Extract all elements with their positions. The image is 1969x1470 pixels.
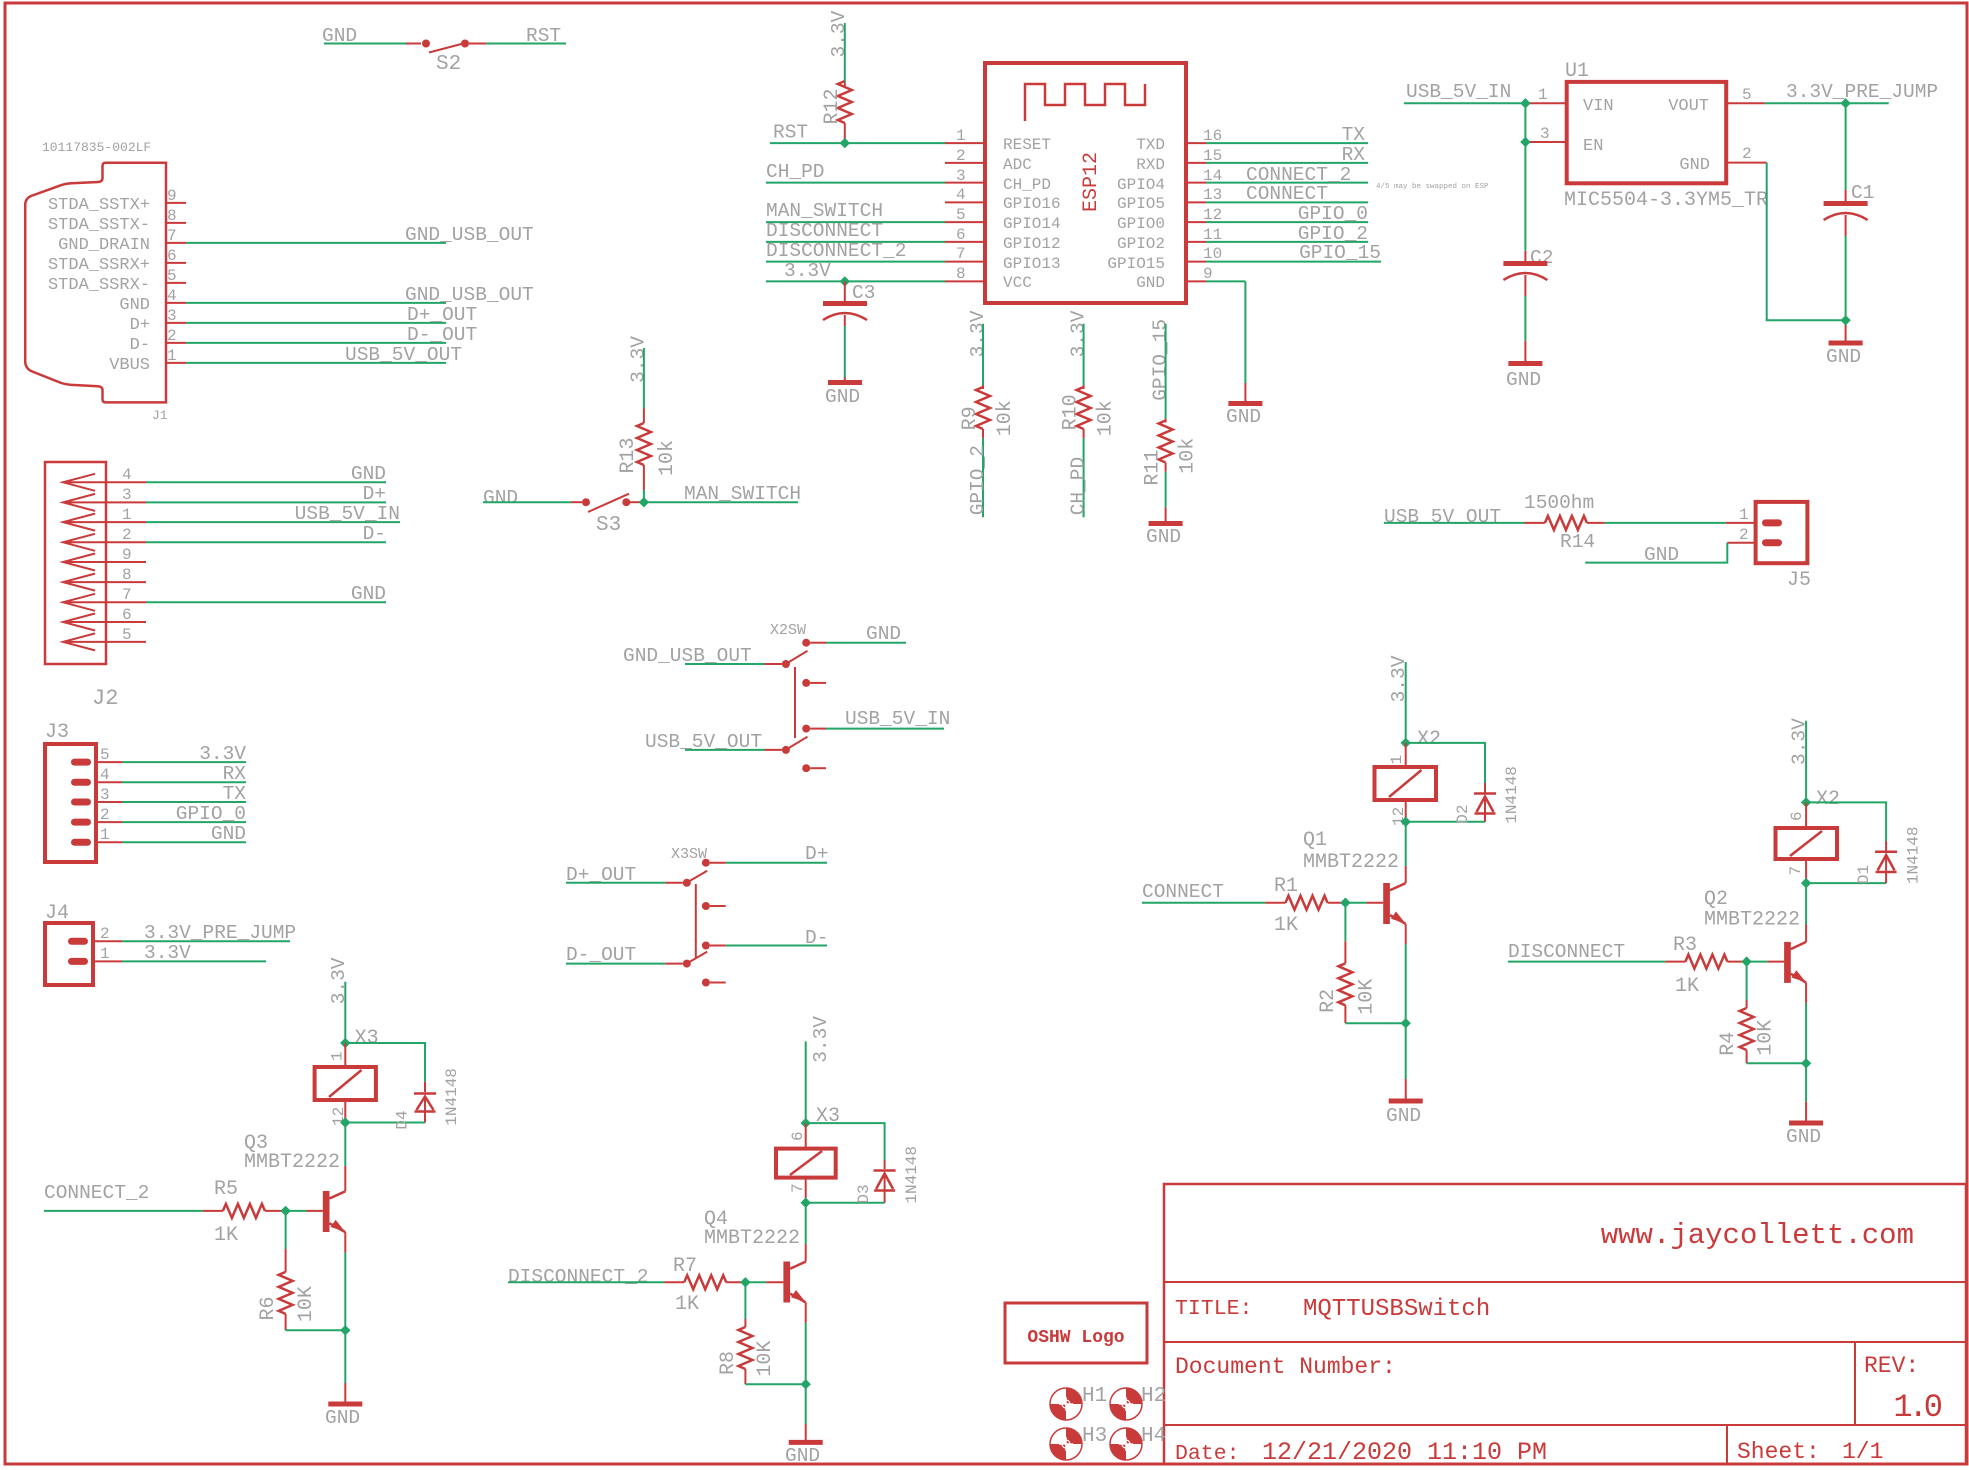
J2 pin 3	[63, 483, 386, 511]
svg-text:J2: J2	[92, 686, 118, 711]
wire base junction to Q1	[1345, 902, 1383, 904]
svg-text:8: 8	[122, 566, 132, 584]
J3 pin 4	[71, 763, 246, 786]
svg-text:X3: X3	[816, 1105, 840, 1128]
resistor R2 10K	[1317, 903, 1406, 1024]
svg-text:13: 13	[1203, 186, 1222, 204]
wire junction to D3 anode	[806, 1202, 885, 1204]
wire GND to S2	[324, 43, 406, 45]
svg-text:GPIO14: GPIO14	[1003, 215, 1061, 233]
J3 pin 5	[71, 743, 246, 766]
J2 pin 1	[63, 503, 400, 531]
resistor R12	[821, 10, 852, 143]
svg-text:D-: D-	[130, 336, 150, 355]
svg-text:5: 5	[100, 746, 110, 764]
svg-text:GPIO_15: GPIO_15	[1150, 319, 1172, 401]
ground for C1	[1826, 343, 1863, 368]
svg-text:S2: S2	[436, 53, 461, 76]
svg-text:3: 3	[100, 786, 110, 804]
svg-text:GND: GND	[211, 823, 246, 845]
svg-text:CH_PD: CH_PD	[766, 161, 825, 183]
svg-text:STDA_SSRX+: STDA_SSRX+	[48, 256, 150, 275]
svg-text:D+: D+	[130, 316, 150, 335]
svg-text:GND: GND	[483, 487, 518, 509]
svg-text:U1: U1	[1565, 60, 1589, 83]
X2SW pin USB_5V_IN throw	[802, 725, 810, 733]
node Q3 emitter junction	[340, 1325, 350, 1335]
svg-text:VIN: VIN	[1583, 97, 1614, 116]
node MAN_SWITCH junction	[639, 497, 649, 507]
svg-text:6: 6	[1788, 811, 1806, 821]
svg-text:5: 5	[167, 267, 177, 285]
svg-text:R8: R8	[717, 1351, 740, 1375]
svg-text:REV:: REV:	[1864, 1353, 1919, 1379]
resistor R4 10K	[1717, 962, 1806, 1064]
svg-text:8: 8	[167, 207, 177, 225]
switch S2	[322, 25, 566, 76]
capacitor C2	[1503, 247, 1553, 362]
svg-text:USB_5V_OUT: USB_5V_OUT	[345, 344, 462, 366]
svg-text:9: 9	[122, 546, 132, 564]
ESP pin 1 RESET	[945, 127, 1051, 154]
svg-text:GND: GND	[1679, 156, 1710, 175]
wire base junction to Q4	[745, 1281, 783, 1283]
connector J3	[45, 721, 96, 862]
svg-text:6: 6	[122, 606, 132, 624]
svg-text:1N4148: 1N4148	[1503, 766, 1521, 824]
svg-text:R2: R2	[1317, 989, 1340, 1013]
X3SW pin D+ throw	[702, 859, 710, 867]
ESP pin 11 GPIO2 / wire GPIO_2	[1117, 223, 1368, 253]
svg-text:8: 8	[956, 265, 966, 283]
svg-text:GND: GND	[351, 463, 386, 485]
mechanical link	[794, 667, 796, 738]
node Q3 base junction	[280, 1206, 290, 1216]
svg-text:ADC: ADC	[1003, 156, 1032, 174]
J2 pin 4	[63, 463, 386, 491]
svg-text:3.3V: 3.3V	[784, 260, 831, 282]
wire Q1 emitter to GND	[1405, 944, 1407, 1099]
switch X2SW	[623, 622, 950, 772]
svg-text:GND: GND	[325, 1407, 360, 1429]
connector J2	[45, 462, 118, 711]
svg-text:2: 2	[122, 526, 132, 544]
svg-text:J1: J1	[152, 408, 168, 423]
svg-text:MMBT2222: MMBT2222	[704, 1227, 800, 1250]
svg-text:R1: R1	[1274, 875, 1298, 898]
wire junction to D4 anode	[345, 1122, 425, 1124]
svg-text:6: 6	[956, 226, 966, 244]
svg-text:R10: R10	[1060, 394, 1083, 430]
svg-text:VBUS: VBUS	[109, 356, 150, 375]
node Q2 base junction	[1741, 956, 1751, 966]
svg-text:1: 1	[1739, 506, 1749, 524]
svg-text:GND: GND	[866, 623, 901, 645]
svg-text:X2: X2	[1417, 728, 1441, 751]
svg-text:3.3V: 3.3V	[328, 957, 350, 1004]
diode D4 1N4148	[394, 1068, 462, 1130]
wire VIN to EN	[1525, 103, 1566, 143]
svg-text:J5: J5	[1787, 569, 1811, 592]
ESP pin 7 GPIO13 / wire DISCONNECT_2	[766, 240, 1061, 273]
svg-text:1: 1	[167, 347, 177, 365]
wire Q2 emitter to GND	[1805, 1003, 1807, 1122]
wire GND from J5 pin2	[1585, 543, 1727, 563]
ground for Q4	[785, 1442, 823, 1467]
diode D2 1N4148	[1454, 766, 1521, 824]
svg-text:GND: GND	[119, 296, 150, 315]
J5 pin 2	[1762, 539, 1782, 546]
svg-text:Date:: Date:	[1175, 1442, 1240, 1466]
ESP pin 12 GPIO0 / wire GPIO_0	[1117, 203, 1368, 233]
svg-text:R11: R11	[1142, 450, 1165, 486]
diode D1 1N4148	[1855, 826, 1923, 884]
svg-text:GND: GND	[1506, 369, 1541, 391]
svg-text:10k: 10k	[656, 440, 679, 476]
wire S2 to RST	[486, 43, 566, 45]
svg-text:J3: J3	[45, 721, 69, 744]
ground for R11	[1146, 524, 1183, 549]
antenna symbol	[1025, 84, 1145, 121]
X3SW pin nc lower	[702, 979, 710, 987]
svg-text:4/5 may be swapped on ESP: 4/5 may be swapped on ESP	[1376, 183, 1489, 191]
wire MAN_SWITCH	[644, 483, 801, 505]
svg-text:STDA_SSTX+: STDA_SSTX+	[48, 196, 150, 215]
svg-text:R4: R4	[1717, 1032, 1740, 1056]
wire base junction to Q2	[1747, 961, 1785, 963]
ground for ESP pin 9	[1226, 404, 1262, 429]
wire CONNECT to R1	[1142, 881, 1265, 903]
relay X2 coil (Q1)	[1375, 743, 1437, 826]
mechanical link	[695, 884, 697, 958]
svg-text:1: 1	[956, 127, 966, 145]
svg-text:3.3V: 3.3V	[199, 743, 246, 765]
wire D-_OUT from J1 pin2	[186, 324, 477, 346]
node X3b coil top junction	[801, 1118, 811, 1128]
OSHW logo box	[1005, 1303, 1147, 1363]
J1 pin 4	[119, 287, 186, 315]
svg-text:GND: GND	[825, 386, 860, 408]
svg-text:STDA_SSTX-: STDA_SSTX-	[48, 216, 150, 235]
IC U2 ESP12 body	[985, 63, 1186, 303]
node Q1 base junction	[1340, 898, 1350, 908]
resistor R9 pullup	[959, 310, 1017, 517]
J3 pin 2	[71, 803, 246, 826]
node X2b coil bottom junction	[1801, 878, 1811, 888]
J5 pin 1	[1762, 519, 1782, 526]
svg-text:GPIO15: GPIO15	[1107, 255, 1165, 273]
wire junction to D2 anode	[1406, 821, 1485, 823]
svg-text:RX: RX	[223, 763, 247, 785]
svg-text:7: 7	[122, 586, 132, 604]
node Q2 emitter junction	[1801, 1058, 1811, 1068]
ESP pin 6 GPIO12 / wire DISCONNECT	[766, 220, 1061, 253]
svg-text:10K: 10K	[754, 1341, 777, 1377]
svg-text:GPIO13: GPIO13	[1003, 255, 1061, 273]
svg-text:MAN_SWITCH: MAN_SWITCH	[766, 200, 883, 222]
svg-text:USB_5V_IN: USB_5V_IN	[1406, 81, 1511, 103]
J2 pin 8	[63, 566, 146, 591]
title block text	[1175, 1219, 1942, 1467]
svg-text:GND: GND	[1136, 274, 1165, 292]
svg-text:10K: 10K	[1755, 1020, 1778, 1056]
wire U1 GND pin2	[1726, 145, 1845, 320]
svg-text:D-: D-	[363, 523, 386, 545]
svg-text:RXD: RXD	[1136, 156, 1165, 174]
svg-text:D+: D+	[363, 483, 386, 505]
svg-text:1.0: 1.0	[1893, 1389, 1941, 1426]
switch S3	[483, 487, 644, 537]
wire D+_OUT from J1 pin3	[186, 304, 477, 326]
ground for C3	[825, 383, 862, 409]
svg-text:H3: H3	[1082, 1425, 1107, 1448]
svg-text:MQTTUSBSwitch: MQTTUSBSwitch	[1303, 1296, 1490, 1323]
svg-text:R9: R9	[959, 406, 982, 430]
ESP pin 3 CH_PD / wire CH_PD	[766, 161, 1051, 194]
svg-text:Document Number:: Document Number:	[1175, 1354, 1396, 1380]
svg-text:10k: 10k	[1177, 438, 1200, 474]
ESP pin 8 VCC / wire 3.3V	[766, 260, 1032, 292]
resistor R7 1K	[664, 1255, 745, 1316]
J1 pin 6	[48, 247, 186, 275]
J2 pin 5	[63, 626, 146, 650]
node Q4 base junction	[740, 1277, 750, 1287]
svg-text:GND_USB_OUT: GND_USB_OUT	[405, 284, 534, 306]
svg-text:D-_OUT: D-_OUT	[407, 324, 477, 346]
svg-text:R5: R5	[214, 1178, 238, 1201]
wire junction to D2	[1406, 743, 1485, 783]
svg-text:MMBT2222: MMBT2222	[1704, 909, 1800, 932]
svg-text:1K: 1K	[214, 1224, 238, 1247]
svg-text:R3: R3	[1673, 934, 1697, 957]
svg-text:CH_PD: CH_PD	[1068, 457, 1090, 516]
svg-text:3: 3	[956, 167, 966, 185]
svg-text:D-: D-	[805, 927, 828, 949]
resistor R5 1K	[203, 1178, 286, 1247]
J2 pin 7	[63, 583, 386, 611]
ESP pin 14 GPIO4 / wire CONNECT_2	[1117, 164, 1368, 194]
J3 pin 3	[71, 783, 246, 806]
svg-text:RESET: RESET	[1003, 136, 1051, 154]
svg-text:1: 1	[122, 506, 132, 524]
svg-text:GPIO5: GPIO5	[1117, 195, 1165, 213]
wire 3.3V to X3 coil (Q3)	[328, 957, 379, 1050]
svg-text:2: 2	[956, 147, 966, 165]
svg-text:TX: TX	[1342, 124, 1366, 146]
svg-text:3.3V: 3.3V	[810, 1016, 832, 1063]
svg-text:GND: GND	[1146, 526, 1181, 548]
svg-text:TX: TX	[223, 783, 247, 805]
relay X3 coil (Q4)	[776, 1123, 836, 1203]
svg-text:GPIO0: GPIO0	[1117, 215, 1165, 233]
svg-text:H2: H2	[1141, 1385, 1166, 1408]
wire junction to D1	[1806, 802, 1886, 841]
wire VOUT 3.3V_PRE_JUMP	[1726, 81, 1938, 104]
X2SW common 1 GND_USB_OUT	[782, 660, 790, 668]
title block outline	[1164, 1184, 1966, 1464]
svg-text:CONNECT_2: CONNECT_2	[44, 1182, 149, 1204]
X3SW common 1 D+_OUT	[683, 879, 691, 887]
wire base junction to Q3	[286, 1210, 323, 1212]
mounting hole H3	[1050, 1425, 1107, 1460]
X2SW common 2 USB_5V_OUT	[782, 746, 790, 754]
svg-text:Sheet:: Sheet:	[1737, 1439, 1820, 1465]
J2 pin 2	[63, 523, 386, 551]
svg-text:GND: GND	[1386, 1105, 1421, 1127]
capacitor C1	[1824, 103, 1875, 341]
svg-text:Q1: Q1	[1303, 829, 1327, 852]
wire CONNECT_2 to R5	[44, 1182, 203, 1211]
svg-text:VOUT: VOUT	[1668, 97, 1709, 116]
svg-text:DISCONNECT: DISCONNECT	[766, 220, 883, 242]
svg-text:C3: C3	[852, 282, 875, 304]
X3SW common 2 D-_OUT	[683, 960, 691, 968]
svg-text:X3: X3	[355, 1027, 379, 1050]
J2 pin 6	[63, 606, 146, 631]
svg-text:10K: 10K	[295, 1286, 318, 1322]
svg-text:3.3V: 3.3V	[828, 10, 850, 57]
svg-text:1: 1	[1388, 755, 1406, 765]
wire Q3 emitter to GND	[344, 1253, 346, 1403]
svg-text:GND: GND	[1826, 346, 1861, 368]
svg-text:OSHW Logo: OSHW Logo	[1027, 1328, 1124, 1348]
svg-text:VCC: VCC	[1003, 274, 1032, 292]
X3SW pin nc upper	[702, 902, 710, 910]
ground for Q2	[1786, 1123, 1823, 1148]
svg-text:GND: GND	[1786, 1126, 1821, 1148]
J1 pin 2	[130, 327, 186, 355]
svg-text:GPIO16: GPIO16	[1003, 195, 1061, 213]
X3SW pin D- throw	[702, 942, 710, 950]
ground for Q3	[325, 1404, 362, 1429]
svg-text:GND: GND	[1226, 406, 1261, 428]
X2SW pin GND throw	[802, 639, 810, 647]
svg-text:CONNECT: CONNECT	[1142, 881, 1224, 903]
svg-text:GPIO_0: GPIO_0	[176, 803, 246, 825]
svg-text:MMBT2222: MMBT2222	[1303, 851, 1399, 874]
wire junction to D4	[345, 1043, 425, 1082]
svg-text:www.jaycollett.com: www.jaycollett.com	[1601, 1219, 1914, 1252]
ground for C2	[1506, 364, 1542, 392]
svg-text:D3: D3	[855, 1184, 873, 1203]
svg-text:7: 7	[956, 245, 966, 263]
svg-text:3: 3	[122, 486, 132, 504]
svg-text:EN: EN	[1583, 137, 1603, 156]
node VCC/C3 junction	[840, 276, 850, 286]
svg-text:3.3V: 3.3V	[628, 336, 650, 383]
svg-text:1: 1	[329, 1051, 347, 1061]
svg-text:1K: 1K	[1274, 914, 1298, 937]
svg-text:DISCONNECT_2: DISCONNECT_2	[508, 1266, 648, 1288]
svg-text:7: 7	[1787, 866, 1805, 876]
wire GND_USB_OUT from J1 pin4	[186, 284, 534, 306]
node Q1 emitter junction	[1401, 1018, 1411, 1028]
svg-text:MMBT2222: MMBT2222	[244, 1151, 340, 1174]
wire DISCONNECT to R3	[1508, 941, 1665, 963]
svg-text:D+_OUT: D+_OUT	[407, 304, 477, 326]
svg-text:TITLE:: TITLE:	[1175, 1297, 1252, 1321]
wire 3.3V to X3 coil (Q4)	[806, 1016, 840, 1128]
svg-text:USB_5V_IN: USB_5V_IN	[845, 708, 950, 730]
svg-text:R13: R13	[617, 437, 640, 473]
svg-text:X3SW: X3SW	[671, 846, 707, 863]
svg-text:7: 7	[167, 227, 177, 245]
J3 pin 1	[71, 823, 246, 846]
svg-text:GPIO12: GPIO12	[1003, 235, 1061, 253]
svg-text:GND_USB_OUT: GND_USB_OUT	[405, 224, 534, 246]
svg-text:RX: RX	[1342, 144, 1366, 166]
svg-text:D2: D2	[1454, 804, 1472, 823]
node X3a coil bottom junction	[340, 1117, 350, 1127]
node X3b coil bottom junction	[801, 1198, 811, 1208]
ground for Q1	[1386, 1101, 1423, 1127]
transistor Q3 MMBT2222	[244, 1123, 345, 1253]
ESP pin 15 RXD / wire RX	[1136, 144, 1368, 174]
mounting hole H1	[1050, 1385, 1107, 1420]
ESP pin 2 ADC	[945, 147, 1032, 174]
transistor Q2 MMBT2222	[1704, 883, 1806, 1003]
transistor Q4 MMBT2222	[704, 1203, 806, 1323]
svg-text:4: 4	[100, 766, 110, 784]
svg-text:X2SW: X2SW	[770, 622, 806, 639]
resistor R3 1K	[1665, 934, 1746, 998]
ESP pin 16 TXD / wire TX	[1136, 124, 1368, 154]
svg-text:RST: RST	[526, 25, 561, 47]
svg-text:2: 2	[1739, 526, 1749, 544]
svg-text:GPIO4: GPIO4	[1117, 176, 1165, 194]
svg-text:5: 5	[1742, 86, 1752, 104]
svg-text:3.3V: 3.3V	[967, 310, 989, 357]
resistor R1 1K	[1265, 875, 1345, 937]
svg-text:1/1: 1/1	[1842, 1439, 1883, 1465]
svg-text:2: 2	[100, 925, 110, 943]
relay X2 coil (Q2)	[1776, 802, 1838, 883]
svg-text:1: 1	[100, 826, 110, 844]
X2SW pin nc upper	[802, 679, 810, 687]
svg-text:X2: X2	[1816, 788, 1840, 811]
svg-text:2: 2	[100, 806, 110, 824]
wire 3.3V to X2 coil	[1388, 655, 1441, 751]
wire junction to D3	[806, 1123, 885, 1160]
wire USB_5V_IN to U1	[1404, 81, 1567, 104]
svg-text:RST: RST	[773, 122, 808, 144]
node X2b coil top junction	[1801, 797, 1811, 807]
svg-text:1N4148: 1N4148	[903, 1146, 921, 1204]
svg-text:GND: GND	[785, 1445, 820, 1467]
svg-text:ESP12: ESP12	[1080, 152, 1103, 212]
ESP pin 13 GPIO5 / wire CONNECT	[1117, 183, 1368, 213]
wire 3.3V to X2 coil (Q2)	[1788, 718, 1840, 811]
svg-text:4: 4	[122, 466, 132, 484]
svg-text:GPIO_15: GPIO_15	[1299, 242, 1381, 264]
svg-text:10117835-002LF: 10117835-002LF	[42, 140, 151, 155]
capacitor C3	[823, 281, 875, 381]
svg-text:GPIO2: GPIO2	[1117, 235, 1165, 253]
wire junction to D1 anode	[1806, 882, 1886, 884]
svg-text:CONNECT: CONNECT	[1246, 183, 1328, 205]
svg-text:USB_5V_IN: USB_5V_IN	[295, 503, 400, 525]
svg-text:DISCONNECT_2: DISCONNECT_2	[766, 240, 906, 262]
J2 pin 9	[63, 546, 146, 571]
resistor R10 pullup	[1060, 310, 1118, 517]
svg-text:DISCONNECT: DISCONNECT	[1508, 941, 1625, 963]
J1 pin 3	[130, 307, 186, 335]
svg-text:1K: 1K	[1675, 975, 1699, 998]
J1 pin 8	[48, 207, 186, 235]
resistor R11 pulldown	[1142, 319, 1200, 522]
J1 pin 1	[109, 347, 186, 375]
svg-text:9: 9	[1203, 265, 1213, 283]
